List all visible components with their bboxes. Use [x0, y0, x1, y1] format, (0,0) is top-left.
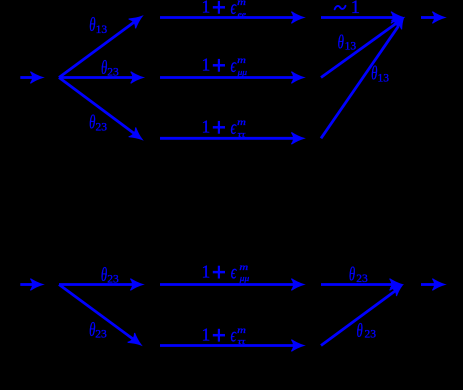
- svg-text:θ: θ: [89, 14, 95, 36]
- label 1+eps^m_tautau bottom: [202, 325, 247, 347]
- svg-text:1: 1: [202, 55, 211, 75]
- label 1+eps^m_mumu: [202, 55, 248, 77]
- svg-text:1: 1: [202, 261, 211, 281]
- svg-text:θ: θ: [371, 63, 377, 85]
- svg-text:23: 23: [107, 66, 119, 78]
- svg-text:ϵ: ϵ: [231, 325, 237, 347]
- wire: row tautau horizontal arrow: [160, 133, 304, 145]
- svg-text:1: 1: [202, 0, 211, 17]
- label theta_23 right-horizontal bottom: [349, 264, 368, 286]
- label theta_13 right-lower: [371, 63, 389, 85]
- wire: exit arrow bottom: [421, 279, 445, 291]
- svg-text:m: m: [237, 56, 246, 66]
- svg-text:θ: θ: [89, 112, 95, 134]
- svg-text:ϵ: ϵ: [231, 0, 237, 19]
- svg-text:θ: θ: [357, 320, 363, 342]
- wire: row mumu bottom horizontal arrow: [160, 279, 304, 291]
- svg-text:ee: ee: [238, 10, 247, 19]
- wire: branch theta13 up: [59, 12, 146, 78]
- svg-text:23: 23: [356, 273, 368, 285]
- wire: row mumu horizontal arrow: [160, 72, 304, 84]
- label 1+eps^m_tautau: [202, 117, 247, 139]
- label theta_23 middle-left: [101, 57, 119, 79]
- label theta_23 bottom-left diagonal: [89, 319, 107, 341]
- svg-text:ϵ: ϵ: [231, 262, 237, 284]
- wire: right horizontal theta23 bottom: [321, 279, 402, 291]
- svg-text:1: 1: [351, 0, 360, 18]
- label theta_13 top-left: [89, 14, 107, 36]
- wire: entry arrow top: [20, 72, 43, 84]
- wire: branch theta23 down: [59, 78, 146, 145]
- label 1+eps^m_mumu bottom: [202, 261, 250, 283]
- wire: exit arrow top: [421, 12, 445, 24]
- wire: right diagonal from mumu row, theta13: [321, 14, 406, 78]
- svg-text:m: m: [237, 326, 246, 336]
- wire: row ee horizontal arrow: [160, 12, 304, 24]
- svg-text:m: m: [237, 0, 246, 8]
- wire: entry arrow bottom: [20, 279, 43, 291]
- wire: right diagonal theta23 bottom: [321, 281, 405, 345]
- label theta_23 bottom-left: [89, 112, 107, 134]
- label 1+eps^m_ee: [202, 0, 247, 19]
- wire: branch theta23 down bottom: [59, 285, 145, 350]
- svg-text:23: 23: [96, 121, 108, 133]
- label theta_23 right-diagonal bottom: [357, 320, 377, 342]
- svg-text:θ: θ: [349, 264, 355, 286]
- wire: branch theta23 horizontal bottom: [59, 279, 143, 291]
- svg-text:ϵ: ϵ: [231, 55, 237, 77]
- wire: right horizontal ~1 arrow into vertex: [321, 12, 403, 24]
- svg-text:1: 1: [202, 117, 211, 137]
- label theta_23 bottom-left horizontal: [101, 264, 119, 286]
- label ~ 1: [335, 0, 360, 18]
- svg-text:ϵ: ϵ: [231, 117, 237, 139]
- svg-text:23: 23: [107, 274, 119, 286]
- svg-text:m: m: [237, 118, 246, 128]
- svg-text:m: m: [239, 263, 248, 273]
- label theta_13 right-upper: [338, 31, 357, 53]
- svg-text:13: 13: [378, 72, 390, 84]
- wire: row tautau bottom horizontal arrow: [160, 340, 304, 352]
- svg-text:μμ: μμ: [239, 274, 250, 283]
- svg-text:13: 13: [96, 24, 108, 36]
- svg-text:23: 23: [95, 329, 107, 341]
- wire: right diagonal from tautau row, theta13: [321, 15, 408, 138]
- svg-text:μμ: μμ: [236, 68, 247, 77]
- svg-text:1: 1: [202, 325, 211, 345]
- wire: branch theta23 middle: [59, 72, 143, 84]
- svg-text:13: 13: [345, 40, 357, 52]
- svg-text:θ: θ: [338, 31, 344, 53]
- svg-text:23: 23: [365, 329, 377, 341]
